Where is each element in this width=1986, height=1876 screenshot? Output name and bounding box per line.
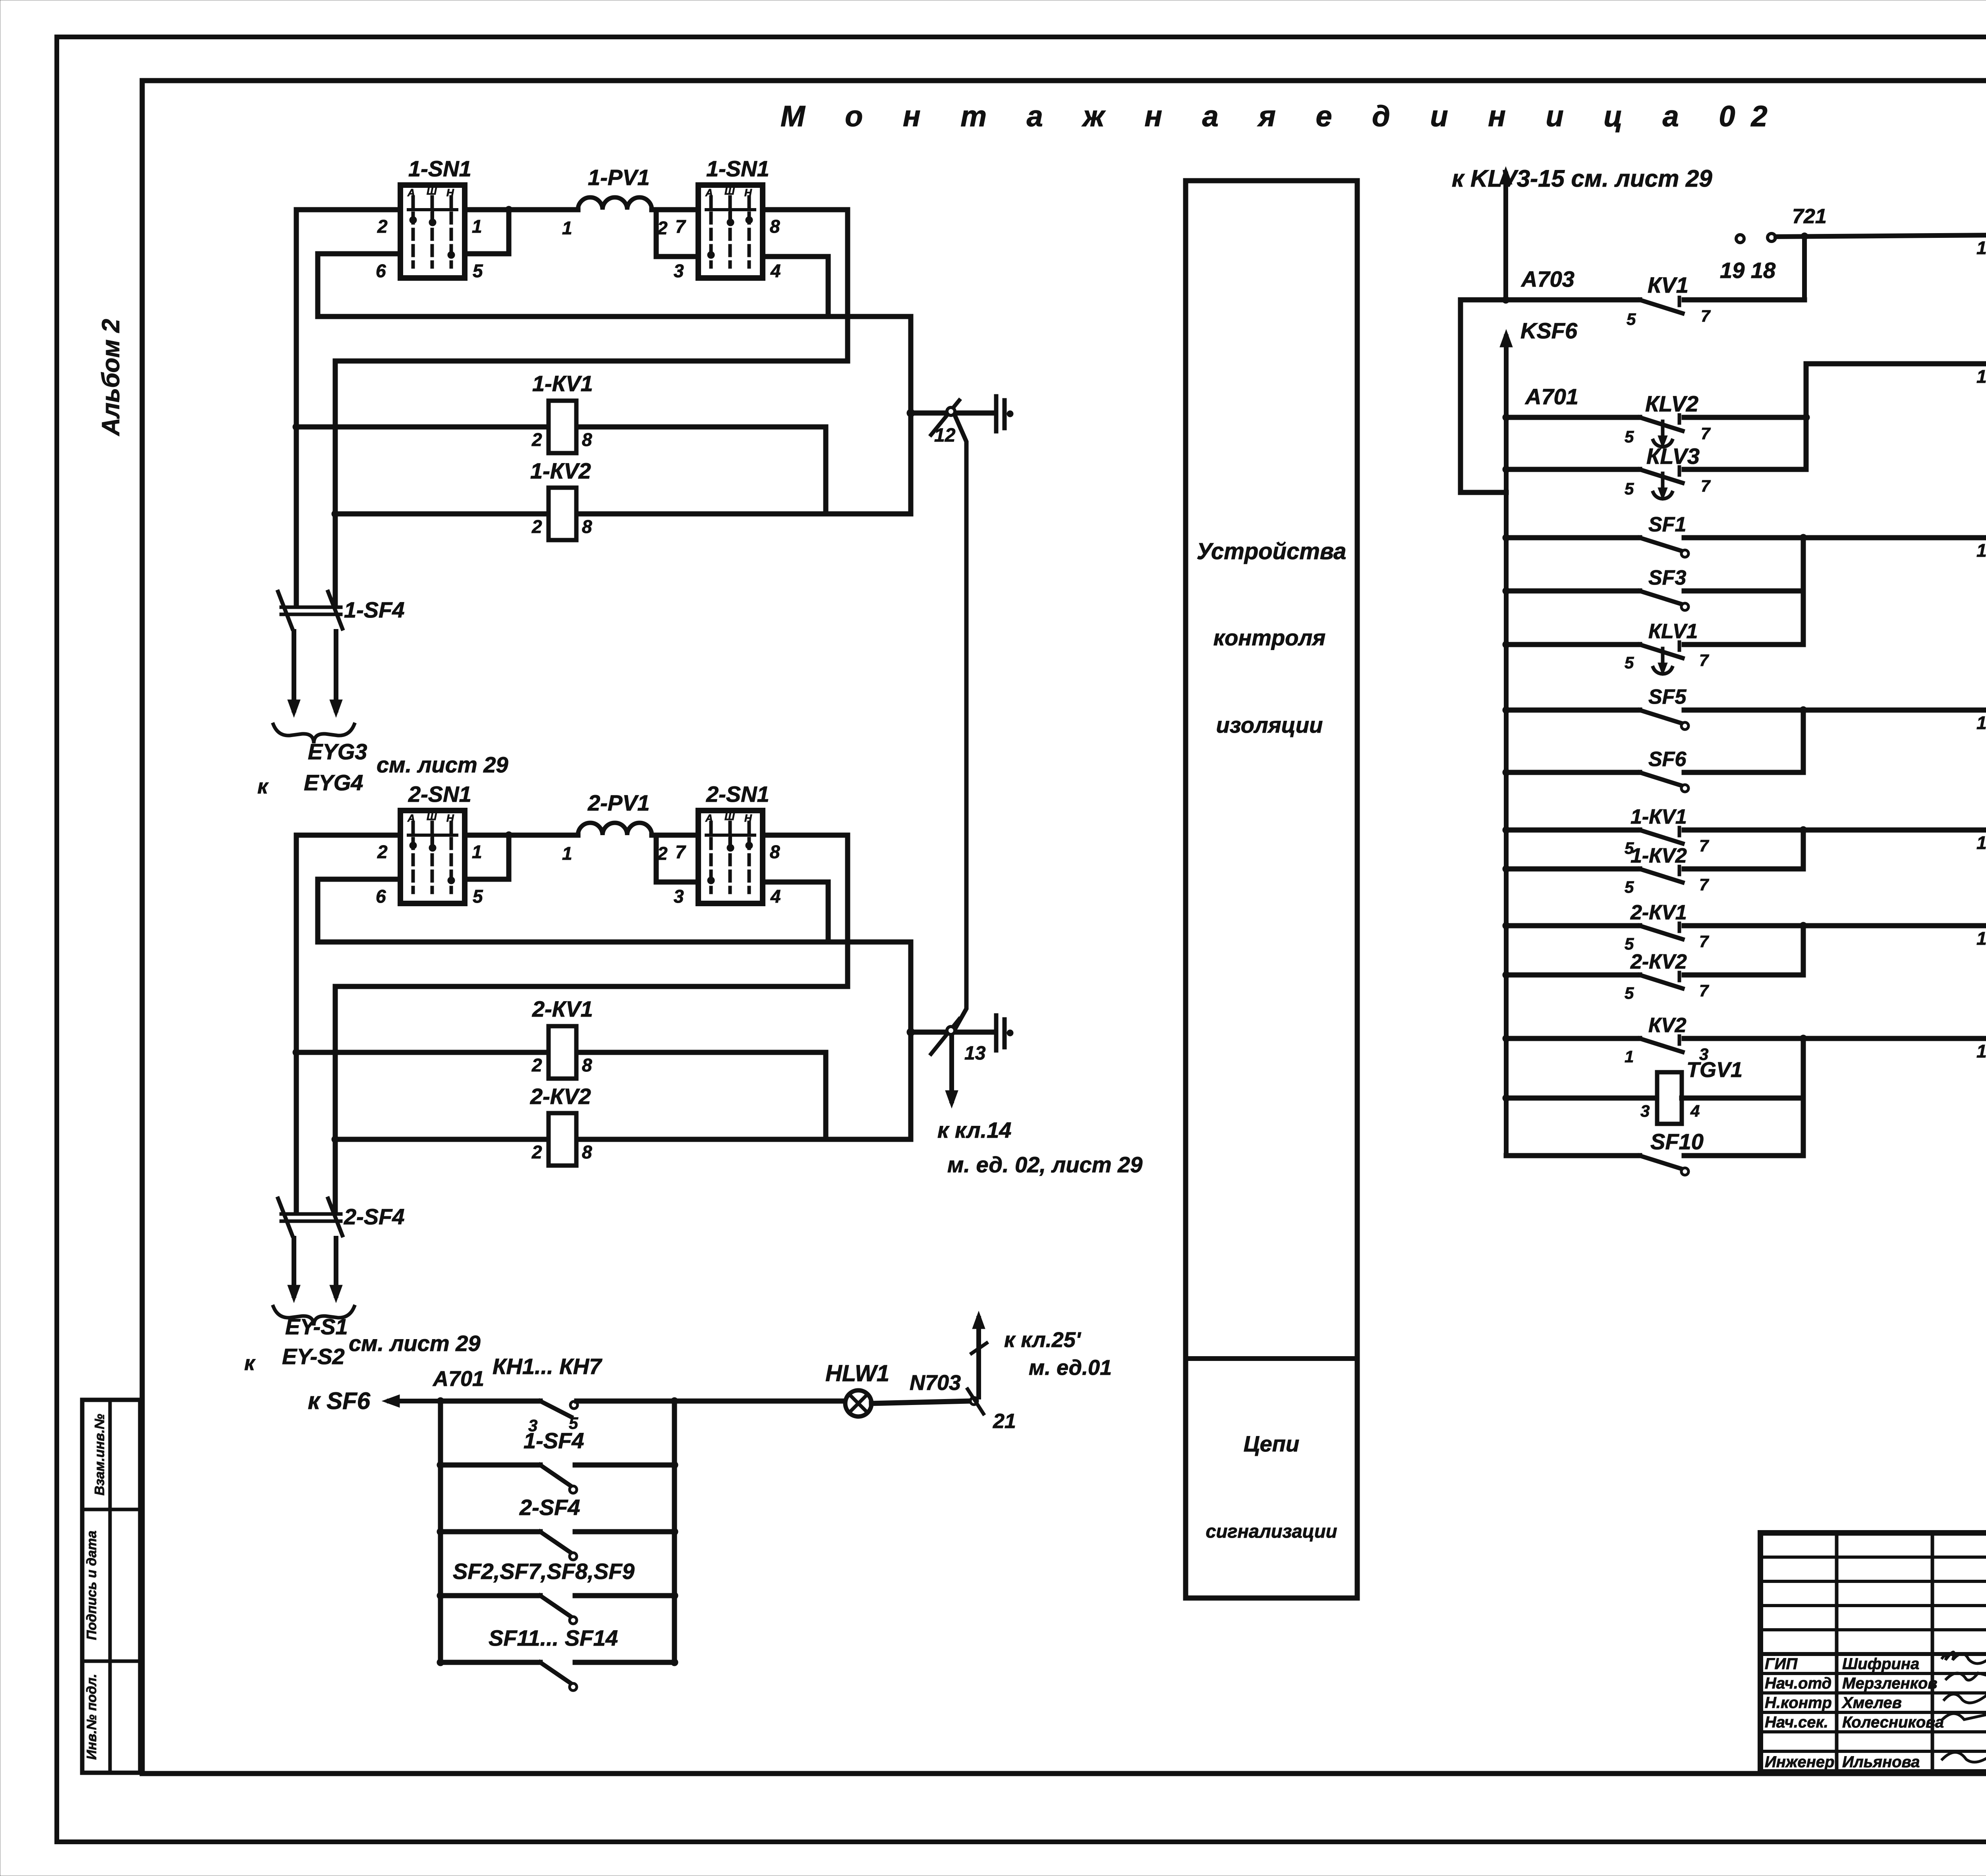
svg-text:Н: Н	[446, 187, 454, 199]
svg-text:8: 8	[770, 216, 780, 237]
svg-text:1-КV1: 1-КV1	[532, 371, 593, 396]
svg-text:Взам.инв.№: Взам.инв.№	[92, 1414, 107, 1496]
svg-text:13: 13	[964, 1043, 986, 1064]
svg-text:см. лист 29: см. лист 29	[377, 752, 508, 777]
svg-text:НLW1: НLW1	[825, 1361, 889, 1386]
svg-text:ЕY-S1: ЕY-S1	[285, 1314, 348, 1339]
svg-text:см. лист 29: см. лист 29	[349, 1331, 481, 1356]
svg-text:2-SF4: 2-SF4	[344, 1204, 405, 1229]
svg-text:8: 8	[770, 841, 780, 862]
svg-text:7: 7	[675, 216, 686, 237]
svg-text:1-SN1: 1-SN1	[408, 156, 471, 181]
svg-text:5: 5	[1627, 310, 1636, 328]
svg-text:КН1... КН7: КН1... КН7	[493, 1354, 603, 1379]
svg-text:Ш: Ш	[724, 811, 735, 822]
svg-text:SF6: SF6	[1648, 748, 1687, 771]
svg-text:Нач.сек.: Нач.сек.	[1765, 1714, 1828, 1731]
svg-text:5: 5	[1625, 479, 1634, 498]
svg-text:Цепи: Цепи	[1244, 1431, 1299, 1456]
svg-text:1: 1	[1976, 928, 1986, 949]
svg-text:Хмелев: Хмелев	[1841, 1694, 1902, 1712]
svg-text:Н: Н	[744, 812, 752, 824]
svg-text:SF10: SF10	[1650, 1129, 1704, 1154]
svg-text:2-КV1: 2-КV1	[1630, 901, 1687, 924]
svg-text:7: 7	[1699, 875, 1709, 894]
svg-text:КLV1: КLV1	[1648, 620, 1698, 643]
svg-text:7: 7	[1701, 424, 1711, 443]
svg-text:Ш: Ш	[724, 185, 735, 197]
svg-text:Мерзленков: Мерзленков	[1842, 1675, 1938, 1692]
svg-text:к кл.14: к кл.14	[937, 1117, 1011, 1143]
svg-text:ТGV1: ТGV1	[1687, 1058, 1743, 1082]
svg-text:SF1: SF1	[1648, 513, 1686, 536]
svg-text:4: 4	[770, 886, 781, 907]
svg-text:2: 2	[377, 841, 388, 862]
svg-text:SF11... SF14: SF11... SF14	[489, 1625, 618, 1650]
svg-text:7: 7	[1699, 836, 1709, 855]
svg-text:19 18: 19 18	[1720, 258, 1776, 283]
svg-text:2: 2	[531, 429, 542, 450]
svg-text:к SF6: к SF6	[308, 1388, 371, 1414]
svg-text:7: 7	[1699, 981, 1709, 1000]
svg-text:8: 8	[582, 516, 592, 537]
svg-text:3: 3	[674, 886, 684, 907]
svg-text:контроля: контроля	[1213, 625, 1325, 650]
svg-text:7: 7	[1701, 307, 1711, 325]
svg-text:м. ед.01: м. ед.01	[1029, 1356, 1112, 1380]
svg-text:1: 1	[562, 843, 572, 864]
svg-text:Альбом 2: Альбом 2	[97, 319, 125, 436]
svg-text:Н.контр: Н.контр	[1765, 1694, 1832, 1712]
svg-text:1-КV1: 1-КV1	[1631, 805, 1687, 828]
svg-text:1: 1	[562, 218, 572, 238]
svg-text:М о н т а ж н а я е д и н: М о н т а ж н а я е д и н и ц а 02	[780, 100, 1783, 133]
svg-text:7: 7	[1699, 651, 1709, 670]
svg-text:2: 2	[377, 216, 388, 237]
svg-text:1: 1	[1976, 540, 1986, 561]
svg-text:7: 7	[675, 841, 686, 862]
svg-text:5: 5	[1625, 653, 1634, 672]
svg-text:8: 8	[582, 1055, 592, 1075]
svg-text:SF2,SF7,SF8,SF9: SF2,SF7,SF8,SF9	[453, 1559, 635, 1584]
svg-text:Инженер: Инженер	[1765, 1753, 1834, 1771]
svg-text:5: 5	[1625, 878, 1634, 896]
svg-text:А: А	[705, 812, 713, 824]
svg-text:5: 5	[473, 261, 483, 281]
svg-text:2-SF4: 2-SF4	[519, 1495, 580, 1520]
svg-text:Н: Н	[744, 187, 752, 199]
svg-text:SF5: SF5	[1648, 685, 1687, 708]
svg-text:5: 5	[473, 886, 483, 907]
svg-text:12: 12	[934, 425, 956, 446]
svg-text:1: 1	[472, 841, 482, 862]
svg-text:5: 5	[1625, 984, 1634, 1002]
svg-text:Подпись и дата: Подпись и дата	[84, 1531, 99, 1640]
svg-text:Инв.№ подл.: Инв.№ подл.	[84, 1674, 99, 1760]
svg-text:А701: А701	[432, 1367, 484, 1391]
svg-text:1: 1	[1976, 366, 1986, 387]
svg-text:Устройства: Устройства	[1197, 538, 1347, 564]
svg-text:Шифрина: Шифрина	[1842, 1655, 1919, 1673]
svg-text:м. ед. 02, лист 29: м. ед. 02, лист 29	[947, 1152, 1142, 1177]
svg-text:5: 5	[1625, 427, 1634, 446]
svg-text:1-КV2: 1-КV2	[1631, 844, 1687, 867]
svg-text:А701: А701	[1524, 384, 1578, 409]
svg-text:Ш: Ш	[427, 185, 437, 197]
svg-text:2-КV1: 2-КV1	[532, 996, 593, 1021]
svg-text:Н: Н	[446, 812, 454, 824]
svg-text:3: 3	[674, 261, 684, 281]
svg-text:1: 1	[472, 216, 482, 237]
svg-text:КV2: КV2	[1648, 1014, 1687, 1037]
svg-text:2: 2	[531, 1142, 542, 1162]
svg-text:А: А	[407, 187, 415, 199]
svg-text:ГИП: ГИП	[1765, 1655, 1798, 1673]
svg-text:2-КV2: 2-КV2	[530, 1084, 591, 1109]
svg-text:N703: N703	[910, 1371, 961, 1395]
svg-text:1-SF4: 1-SF4	[524, 1428, 584, 1453]
svg-text:ЕY-S2: ЕY-S2	[282, 1344, 345, 1369]
svg-text:1-КV2: 1-КV2	[530, 458, 591, 483]
svg-text:ЕYG4: ЕYG4	[304, 770, 363, 795]
svg-text:к кл.25': к кл.25'	[1004, 1328, 1082, 1352]
svg-text:1: 1	[1976, 832, 1986, 853]
svg-text:1: 1	[1976, 1041, 1986, 1062]
svg-text:Колесникова: Колесникова	[1842, 1714, 1944, 1731]
svg-text:2-SN1: 2-SN1	[408, 782, 471, 807]
svg-text:изоляции: изоляции	[1216, 712, 1323, 737]
svg-text:1: 1	[1625, 1047, 1634, 1066]
svg-text:КLV3: КLV3	[1646, 444, 1700, 469]
svg-text:7: 7	[1701, 477, 1711, 495]
svg-text:к: к	[244, 1352, 256, 1375]
svg-text:А: А	[407, 812, 415, 824]
svg-text:3: 3	[1640, 1102, 1650, 1120]
svg-text:КLV2: КLV2	[1645, 391, 1698, 416]
svg-text:к: к	[257, 775, 269, 798]
svg-text:1: 1	[1976, 237, 1986, 258]
svg-text:Ш: Ш	[427, 811, 437, 822]
svg-text:2-SN1: 2-SN1	[706, 782, 769, 807]
svg-text:4: 4	[1690, 1102, 1700, 1120]
svg-text:KSF6: KSF6	[1520, 318, 1578, 343]
svg-text:SF3: SF3	[1648, 566, 1686, 589]
svg-text:2-PV1: 2-PV1	[587, 790, 650, 815]
svg-text:Ильянова: Ильянова	[1842, 1753, 1920, 1771]
svg-text:7: 7	[1699, 932, 1709, 951]
svg-text:4: 4	[770, 261, 781, 281]
svg-text:1: 1	[1976, 712, 1986, 733]
svg-text:к KLV3-15 см. лист 29: к KLV3-15 см. лист 29	[1452, 165, 1712, 192]
svg-text:1-PV1: 1-PV1	[588, 165, 650, 190]
svg-text:2-КV2: 2-КV2	[1630, 950, 1687, 973]
svg-text:2: 2	[531, 516, 542, 537]
svg-text:ЕYG3: ЕYG3	[308, 739, 367, 764]
svg-text:1-SN1: 1-SN1	[706, 156, 769, 181]
svg-text:6: 6	[376, 886, 386, 907]
svg-text:А703: А703	[1520, 266, 1575, 291]
svg-text:1-SF4: 1-SF4	[344, 597, 405, 622]
svg-text:21: 21	[993, 1410, 1016, 1433]
svg-text:сигнализации: сигнализации	[1206, 1521, 1337, 1542]
svg-text:8: 8	[582, 429, 592, 450]
svg-text:8: 8	[582, 1142, 592, 1162]
svg-text:2: 2	[531, 1055, 542, 1075]
svg-text:А: А	[705, 187, 713, 199]
svg-text:КV1: КV1	[1648, 272, 1688, 297]
svg-text:6: 6	[376, 261, 386, 281]
svg-text:Нач.отд: Нач.отд	[1765, 1675, 1831, 1692]
svg-text:721: 721	[1792, 205, 1827, 228]
